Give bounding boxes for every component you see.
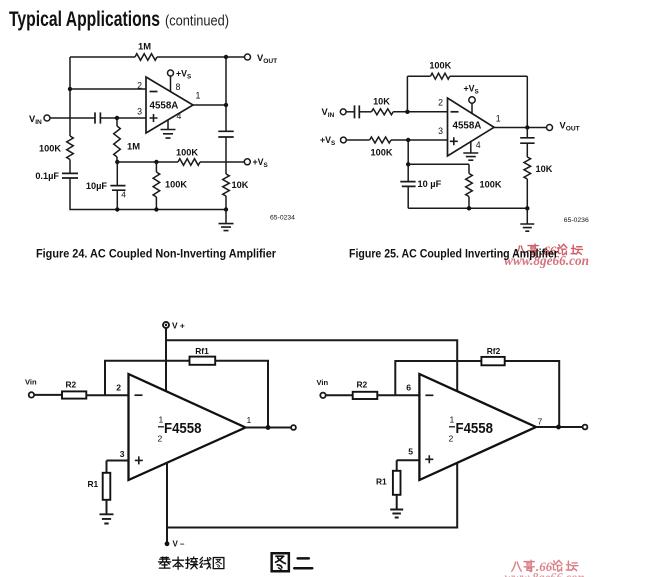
wire: 10uF stubs (Fig25) bbox=[407, 164, 409, 208]
caption Figure 25 bbox=[349, 249, 558, 261]
svg-text:(continued): (continued) bbox=[165, 13, 229, 30]
svg-text:2: 2 bbox=[116, 383, 121, 393]
wire: bias horizontal bbox=[408, 163, 469, 165]
label 100K shunt bbox=[480, 180, 502, 190]
wire: output B bbox=[536, 426, 583, 428]
svg-text:7: 7 bbox=[538, 417, 543, 427]
wire: feedback line A bbox=[105, 361, 268, 428]
label 100K mid bbox=[176, 148, 198, 158]
svg-text:10µF: 10µF bbox=[86, 181, 108, 191]
wire: feedback line B bbox=[395, 361, 559, 427]
label 10K load (Fig25) bbox=[536, 164, 553, 174]
wire: +VS to 100K bbox=[346, 139, 369, 141]
label 10K bbox=[232, 180, 249, 190]
svg-text:Rf2: Rf2 bbox=[487, 346, 501, 356]
label VIN (Fig25) bbox=[322, 107, 335, 119]
terminal output A bbox=[291, 425, 296, 430]
wire: bottom rail (Fig25) bbox=[408, 207, 527, 209]
wire: cap to pin 3 bbox=[100, 117, 146, 119]
wire: V+ rail to op-amp B bbox=[166, 340, 457, 390]
node: 100K rail junction (Fig25) bbox=[467, 206, 471, 210]
terminal +VS pin8 (Fig25) bbox=[469, 97, 475, 114]
svg-text:V –: V – bbox=[173, 540, 186, 549]
node: output junction (Fig25) bbox=[525, 125, 529, 129]
label Rf1 bbox=[195, 346, 209, 356]
svg-text:3: 3 bbox=[438, 126, 443, 136]
terminal Vin B bbox=[320, 393, 325, 398]
svg-text:10K: 10K bbox=[232, 180, 249, 190]
wire: 10K to rail bbox=[225, 196, 227, 210]
pin label 4 (Fig24) bbox=[177, 111, 182, 121]
resistor R1 B bbox=[393, 471, 401, 495]
label R1 A bbox=[88, 479, 99, 489]
svg-text:100K: 100K bbox=[39, 144, 61, 154]
svg-text:R2: R2 bbox=[357, 380, 368, 390]
node: pin3 junction bbox=[115, 116, 119, 120]
resistor 10K load (Fig25) bbox=[524, 157, 531, 179]
pin label 4 (Fig25) bbox=[476, 140, 481, 150]
node: pin3 junction (Fig25) bbox=[406, 138, 410, 142]
pin label 7 B bbox=[538, 417, 543, 427]
resistor 100K +VS (Fig25) bbox=[370, 137, 391, 143]
label V- bbox=[173, 540, 186, 549]
svg-text:4: 4 bbox=[177, 111, 182, 121]
svg-text:3: 3 bbox=[137, 107, 142, 117]
svg-text:0.1µF: 0.1µF bbox=[35, 171, 59, 181]
capacitor output coupling (Fig24) bbox=[218, 131, 233, 137]
wire: to VOUT terminal bbox=[226, 56, 245, 58]
svg-text:Rf1: Rf1 bbox=[195, 346, 209, 356]
svg-text:2: 2 bbox=[137, 81, 142, 91]
op-amp A 1/2 F4558 bbox=[129, 374, 246, 480]
resistor 100K feedback (Fig25) bbox=[431, 73, 450, 79]
terminal VIN (Fig25) bbox=[340, 109, 346, 115]
resistor Rf2 bbox=[481, 357, 504, 365]
label 4 (10uF plate) bbox=[121, 190, 126, 200]
ground: op-amp pin 4 (Fig24) bbox=[161, 120, 176, 138]
svg-text:2: 2 bbox=[449, 433, 454, 443]
svg-text:1M: 1M bbox=[138, 41, 151, 52]
resistor Rf1 bbox=[190, 357, 216, 365]
label 100K +VS bbox=[371, 148, 393, 158]
wire: Vin to R2 A bbox=[34, 394, 62, 396]
resistor R2 A bbox=[62, 391, 86, 398]
wire: feedback top line bbox=[407, 75, 527, 77]
resistor 100K to +VS (Fig24) bbox=[178, 159, 200, 166]
label VOUT bbox=[257, 53, 277, 65]
node: bias junction (Fig25) bbox=[406, 162, 410, 166]
wire: 1M stubs bbox=[116, 118, 118, 162]
wire: feedback vertical up bbox=[406, 76, 408, 112]
capacitor output (Fig25) bbox=[520, 138, 534, 143]
wire: cap to 10K (Fig25) bbox=[526, 143, 528, 157]
capacitor input coupling (Fig25) bbox=[355, 105, 360, 118]
terminal VOUT (Fig24) bbox=[245, 54, 251, 60]
svg-text:4558A: 4558A bbox=[453, 121, 482, 132]
resistor 10K (Fig25) bbox=[372, 109, 394, 115]
svg-text:10K: 10K bbox=[373, 96, 390, 106]
wire: 100K lower stubs bbox=[155, 162, 157, 210]
pin label 8 bbox=[176, 82, 181, 92]
wire: pin 2 input bbox=[70, 88, 146, 90]
wire: output A bbox=[246, 427, 292, 429]
svg-text:4: 4 bbox=[121, 190, 126, 200]
pin label 3 (Fig24) bbox=[137, 107, 142, 117]
svg-text:www.8ge66.con: www.8ge66.con bbox=[505, 570, 585, 577]
terminal +VS input (Fig25) bbox=[341, 137, 347, 143]
ground: pin 4 (Fig25) bbox=[463, 141, 478, 160]
wire: output pin 1 (Fig25) bbox=[494, 127, 547, 129]
wire: V+ down to op-amp A top bbox=[165, 328, 167, 392]
pin label 2 A bbox=[116, 383, 121, 393]
svg-text:Vin: Vin bbox=[25, 378, 37, 387]
pin label 3 (Fig25) bbox=[438, 126, 443, 136]
watermark url top: www.8ge66.con bbox=[504, 253, 589, 268]
wire: feedback down to output bbox=[526, 76, 528, 127]
svg-text:1M: 1M bbox=[127, 141, 140, 152]
svg-text:100K: 100K bbox=[165, 180, 187, 190]
svg-text:100K: 100K bbox=[176, 148, 198, 158]
label +VS (pin8) bbox=[176, 69, 191, 81]
wire: pin 5 stub B bbox=[397, 459, 420, 461]
pin label 3 A bbox=[120, 449, 125, 459]
node: pin2 junction bbox=[68, 87, 72, 91]
terminal VOUT (Fig25) bbox=[547, 125, 553, 131]
node: pin2/feedback junction bbox=[405, 110, 409, 114]
svg-text:1: 1 bbox=[496, 114, 501, 124]
svg-text:2: 2 bbox=[438, 98, 443, 108]
svg-text:5: 5 bbox=[408, 447, 413, 457]
svg-text:65-0236: 65-0236 bbox=[564, 217, 589, 224]
wire: left vertical bias chain bbox=[69, 57, 71, 174]
node: output B junction bbox=[556, 425, 561, 430]
wire: pin5 down to R1 B bbox=[396, 460, 398, 471]
node: 10uF rail junction bbox=[115, 207, 119, 211]
op-amp U1 4558A (Fig24) bbox=[146, 77, 193, 133]
wire: output down to cap bbox=[225, 105, 227, 131]
label +VS mid bbox=[253, 157, 268, 169]
node: output junction bbox=[224, 103, 228, 107]
node: ground rail junction bbox=[224, 207, 228, 211]
ground: bottom rail (Fig25) bbox=[520, 208, 534, 231]
watermark CJK top: 八哥.66论坛 bbox=[516, 243, 583, 258]
svg-text:1: 1 bbox=[247, 415, 252, 425]
capacitor input coupling (Fig24) bbox=[95, 112, 100, 123]
svg-text:V +: V + bbox=[172, 321, 185, 331]
label 100K feedback bbox=[429, 61, 451, 71]
wire: VIN to coupling cap bbox=[50, 117, 95, 119]
wire: R2 to pin 2 A bbox=[86, 394, 128, 396]
label R1 B bbox=[376, 477, 387, 487]
terminal +VS pin 8 (Fig24) bbox=[168, 70, 174, 92]
svg-text:65-0234: 65-0234 bbox=[270, 215, 295, 222]
wire: 0.1uF to rail corner bbox=[70, 178, 226, 210]
wire: pin1 output bbox=[193, 104, 226, 106]
wire: 100K shunt stubs bbox=[468, 164, 470, 208]
wire: bias vertical bbox=[407, 140, 409, 164]
resistor R2 B bbox=[353, 392, 378, 399]
node: output A junction bbox=[266, 425, 271, 430]
label Rf2 bbox=[487, 346, 501, 356]
ground: bottom rail (Fig24) bbox=[219, 210, 234, 231]
wire: VIN to cap bbox=[346, 111, 354, 113]
svg-text:6: 6 bbox=[406, 383, 411, 393]
svg-text:10 µF: 10 µF bbox=[418, 179, 442, 189]
wire: V- bottom rail bbox=[167, 463, 457, 528]
pin label 1 (Fig24) bbox=[196, 91, 201, 101]
label R2 A bbox=[66, 380, 77, 390]
svg-text:4: 4 bbox=[476, 140, 481, 150]
label Vin B bbox=[317, 378, 329, 387]
label 1M vertical bbox=[127, 141, 140, 152]
label 65-0236 bbox=[564, 217, 589, 224]
wire: Fig24 top feedback net VOUT bbox=[70, 56, 226, 58]
pin label 1 A (output) bbox=[247, 415, 252, 425]
op-amp U1 4558A (Fig25) bbox=[448, 98, 495, 156]
resistor 100K shunt (Fig25) bbox=[466, 174, 473, 197]
terminal V+ supply bbox=[163, 322, 169, 328]
terminal Vin A bbox=[29, 392, 34, 397]
label 10uF bbox=[86, 181, 108, 191]
pin label 2 (Fig24) bbox=[137, 81, 142, 91]
svg-text:2: 2 bbox=[158, 433, 163, 443]
label 65-0234 bbox=[270, 215, 295, 222]
watermark url bottom: www.8ge66.con (clipped) bbox=[505, 570, 585, 577]
svg-text:Typical Applications: Typical Applications bbox=[9, 8, 160, 31]
capacitor 0.1uF (Fig24) bbox=[62, 173, 78, 178]
svg-text:100K: 100K bbox=[371, 148, 393, 158]
node: 1M/10uF junction bbox=[115, 160, 119, 164]
label R2 B bbox=[357, 380, 368, 390]
wire: output vertical to top bbox=[225, 57, 227, 105]
caption: 图二 bbox=[272, 553, 313, 571]
terminal VIN (Fig24) bbox=[44, 115, 50, 121]
node: 100K rail junction bbox=[154, 207, 158, 211]
wire: Vin to R2 B bbox=[326, 394, 353, 396]
resistor 10K load (Fig24) bbox=[223, 174, 230, 196]
pin label 5 B bbox=[408, 447, 413, 457]
resistor 100K lower bias (Fig24) bbox=[153, 172, 160, 197]
wire: cap down through +VS crossing to 10K bbox=[225, 137, 227, 174]
label VIN bbox=[29, 114, 42, 126]
svg-text:F4558: F4558 bbox=[456, 420, 494, 437]
ground: R1 B bbox=[390, 510, 403, 518]
svg-text:1: 1 bbox=[196, 91, 201, 101]
node: 100K bias top junction bbox=[154, 160, 158, 164]
label +VS input (Fig25) bbox=[320, 135, 335, 147]
label 10K (Fig25) bbox=[373, 96, 390, 106]
watermark CJK bottom: 八哥.66论坛 bbox=[512, 559, 578, 574]
op-amp B 1/2 F4558 bbox=[419, 374, 536, 480]
pin label 1 (Fig25) bbox=[496, 114, 501, 124]
svg-text:Figure 25. AC Coupled Invertin: Figure 25. AC Coupled Inverting Amplifie… bbox=[349, 249, 558, 261]
svg-text:R1: R1 bbox=[376, 477, 387, 487]
svg-text:R1: R1 bbox=[88, 479, 99, 489]
svg-text:R2: R2 bbox=[66, 380, 77, 390]
wire: 10K to pin 2 bbox=[393, 111, 447, 113]
node: ground rail junction (Fig25) bbox=[525, 206, 529, 210]
resistor R1 A bbox=[103, 473, 111, 500]
label 100K left bbox=[39, 144, 61, 154]
svg-text:3: 3 bbox=[120, 449, 125, 459]
node: feedback/VOUT junction bbox=[224, 55, 228, 59]
resistor 100K left bias (Fig24) bbox=[67, 136, 74, 160]
svg-text:F4558: F4558 bbox=[164, 420, 202, 437]
pin label 6 B bbox=[406, 383, 411, 393]
label 1M bbox=[138, 41, 151, 52]
wire: pin 3 stub A bbox=[107, 460, 129, 462]
pin label 2 (Fig25) bbox=[438, 98, 443, 108]
svg-text:100K: 100K bbox=[480, 180, 502, 190]
terminal output B bbox=[583, 425, 588, 430]
wire: 10K to rail (Fig25) bbox=[526, 179, 528, 208]
wire: pin3 down to R1 A bbox=[106, 461, 108, 473]
label VOUT (Fig25) bbox=[560, 121, 580, 133]
wire: +VS mid line bbox=[117, 161, 244, 163]
svg-text:Vin: Vin bbox=[317, 378, 329, 387]
wire: 10uF stubs bbox=[116, 162, 118, 210]
wire: cap to 10K bbox=[359, 111, 371, 113]
label +VS pin8 (Fig25) bbox=[464, 84, 479, 96]
label 100K lower bbox=[165, 180, 187, 190]
wire: V- from op-amp A bbox=[166, 463, 168, 544]
resistor 1M bias (Fig24) bbox=[114, 126, 121, 157]
terminal +VS mid (Fig24) bbox=[244, 159, 250, 165]
label 0.1uF bbox=[35, 171, 59, 181]
svg-text:Figure 24. AC Coupled Non-Inve: Figure 24. AC Coupled Non-Inverting Ampl… bbox=[36, 249, 276, 261]
svg-text:1: 1 bbox=[450, 415, 455, 425]
svg-text:4558A: 4558A bbox=[150, 101, 179, 112]
resistor 1M feedback (Fig24) bbox=[135, 54, 157, 61]
svg-text:1: 1 bbox=[159, 415, 164, 425]
svg-text:100K: 100K bbox=[429, 61, 451, 71]
wire: R1 to ground A bbox=[106, 500, 108, 514]
label 10uF (Fig25) bbox=[418, 179, 442, 189]
label Vin A bbox=[25, 378, 37, 387]
ground: R1 A bbox=[100, 514, 114, 523]
capacitor 10uF (Fig24) bbox=[110, 186, 125, 191]
wire: R2 to pin 6 B bbox=[377, 394, 419, 396]
wire: output down to cap (Fig25) bbox=[526, 128, 528, 138]
caption: 基本接线图 bbox=[159, 557, 224, 569]
node: V- terminal bbox=[165, 541, 170, 546]
wire: 100K to pin 3 bbox=[391, 139, 448, 141]
svg-text:8: 8 bbox=[176, 82, 181, 92]
label V+ bbox=[172, 321, 185, 331]
caption Figure 24 bbox=[36, 249, 276, 261]
capacitor 10uF (Fig25) bbox=[400, 182, 415, 187]
wire: R1 to ground B bbox=[396, 495, 398, 510]
svg-text:10K: 10K bbox=[536, 164, 553, 174]
title: Typical Applications (continued) bbox=[9, 8, 229, 31]
